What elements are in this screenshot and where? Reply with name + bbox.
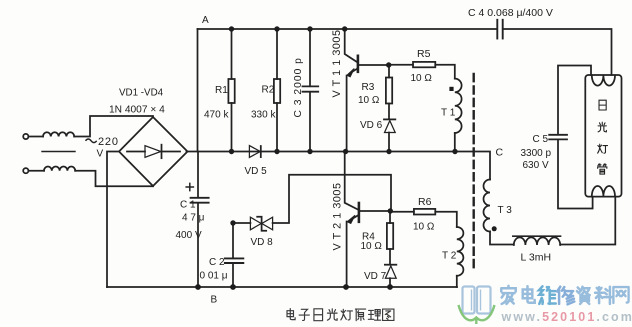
junction mid rail R1 [229, 149, 234, 154]
label 220V tilde [86, 139, 97, 143]
bridge rectifier VD1-VD4 diamond [119, 117, 188, 186]
svg-text:T 3: T 3 [498, 205, 513, 216]
junction C2 VD8 [230, 220, 235, 225]
resistor R2 [276, 29, 278, 79]
svg-text:10 Ω: 10 Ω [358, 95, 380, 106]
svg-text:C: C [496, 147, 504, 159]
transformer T2 winding [457, 227, 464, 276]
C1 plus sign [186, 183, 193, 190]
wire bridge negative column [107, 152, 119, 288]
diode VD7 [385, 264, 396, 266]
junction top rail VT1 collector [342, 26, 347, 31]
wire input top [28, 136, 43, 138]
svg-text:B: B [211, 295, 218, 306]
junction bottom rail C2 [230, 284, 236, 290]
svg-text:VD1 -VD4: VD1 -VD4 [119, 88, 164, 99]
svg-text:C 3 2000 p: C 3 2000 p [293, 57, 304, 117]
transformer T3 winding [484, 180, 490, 232]
junction top rail C3 [307, 26, 312, 31]
inductor filter bottom coil [44, 167, 75, 171]
transformer core dashed line [473, 74, 475, 270]
junction bottom rail VD7 [387, 284, 393, 290]
svg-text:400 V: 400 V [176, 230, 202, 241]
transistor VT2 [345, 152, 358, 210]
svg-text:VD 5: VD 5 [245, 166, 268, 177]
svg-text:0 01 μ: 0 01 μ [200, 271, 228, 282]
diac VD8 [233, 222, 250, 224]
inductor filter top coil [43, 132, 74, 136]
capacitor C4 plates [496, 20, 498, 39]
lamp bottom filament [592, 186, 615, 196]
svg-text:330 k: 330 k [251, 110, 276, 121]
svg-text:T 1: T 1 [441, 108, 456, 119]
junction bottom rail C1 [195, 284, 201, 290]
svg-text:T 2: T 2 [442, 251, 457, 262]
junction mid rail VT1/VT2 [343, 149, 348, 154]
capacitor C2 [232, 223, 234, 258]
svg-text:3300 p: 3300 p [521, 148, 552, 159]
transistor VT1 [345, 29, 357, 62]
transistor VT1 emitter arrow [347, 69, 354, 77]
wire bottom rail [107, 286, 457, 288]
junction mid rail VD6 [386, 149, 391, 154]
svg-text:C 2: C 2 [209, 257, 225, 268]
svg-text:10 Ω: 10 Ω [361, 241, 383, 252]
svg-text:C 4 0.068 μ/400 V: C 4 0.068 μ/400 V [468, 7, 553, 19]
junction VT1 base [386, 62, 391, 67]
wire C5 to lamp bottom-left pin [558, 140, 593, 209]
terminal input bottom [23, 168, 28, 173]
svg-text:V T 1 1 3005: V T 1 1 3005 [331, 29, 343, 97]
svg-text:10 Ω: 10 Ω [411, 73, 433, 84]
svg-text:630 V: 630 V [523, 160, 549, 171]
junction top rail R2 [274, 26, 279, 31]
junction top rail R1 [229, 26, 234, 31]
svg-text:470 k: 470 k [204, 110, 229, 121]
wire top rail left of C4 [198, 28, 498, 30]
resistor R1 [231, 29, 233, 79]
bridge inner diode [127, 151, 145, 153]
svg-text:1N 4007 × 4: 1N 4007 × 4 [109, 105, 165, 116]
svg-text:R3: R3 [362, 82, 375, 93]
T1 polarity mark [449, 87, 453, 91]
transformer T1 winding [455, 79, 462, 133]
svg-text:V: V [97, 149, 104, 160]
svg-text:VD 7: VD 7 [364, 271, 387, 282]
svg-text:A: A [202, 15, 209, 26]
svg-text:R1: R1 [215, 85, 228, 96]
watermark book icon [463, 287, 491, 314]
junction VT2 base [388, 208, 393, 213]
svg-text:C 1: C 1 [180, 200, 196, 211]
inductor L [514, 237, 560, 245]
wire input bottom to bridge [75, 171, 153, 187]
wire lamp top-left pin to C5 [558, 66, 591, 135]
svg-text:R5: R5 [417, 48, 431, 60]
fluorescent tube lamp [585, 75, 621, 197]
junction mid rail T1 [452, 149, 457, 154]
wire top rail right of C4 to lamp [503, 29, 612, 75]
caption 电子日光灯原理图 [287, 309, 394, 321]
svg-text:VD 6: VD 6 [360, 120, 383, 131]
watermark book base swoosh [459, 305, 495, 324]
svg-text:4 7 μ: 4 7 μ [182, 213, 205, 224]
terminal input top [23, 134, 28, 139]
capacitor C3 [309, 29, 311, 86]
svg-text:www.520101.com: www.520101.com [501, 310, 632, 324]
junction mid rail R2 [274, 149, 279, 154]
wire input top to bridge [74, 116, 153, 137]
svg-text:C 5: C 5 [533, 134, 549, 145]
svg-text:10 Ω: 10 Ω [413, 222, 435, 233]
svg-text:L 3mH: L 3mH [521, 252, 552, 264]
junction bottom rail VT2 emitter [343, 284, 349, 290]
T3 polarity mark [492, 226, 497, 231]
capacitor C1 [197, 152, 199, 198]
wire input bottom [28, 170, 44, 172]
svg-text:VD 8: VD 8 [251, 237, 274, 248]
capacitor C5 [549, 134, 567, 136]
resistor R3 [388, 65, 390, 78]
resistor R6 [390, 211, 414, 213]
svg-text:R6: R6 [418, 196, 432, 208]
junction mid rail C3 [307, 149, 312, 154]
wire node A column [197, 29, 199, 152]
resistor R4 [389, 211, 391, 223]
watermark 家电维修资料网 [501, 286, 628, 304]
svg-text:V T 2 1 3005: V T 2 1 3005 [332, 182, 344, 250]
lamp top filament [592, 75, 615, 85]
diode VD6 [384, 118, 395, 120]
choke core line [42, 151, 75, 153]
svg-text:220: 220 [98, 136, 119, 148]
svg-text:R2: R2 [262, 85, 275, 96]
resistor R5 [389, 64, 414, 66]
wire mid rail [187, 152, 491, 180]
transistor VT2 emitter arrow [347, 215, 355, 223]
diode VD5 [249, 146, 260, 158]
lamp label 日光灯管 [598, 100, 608, 174]
